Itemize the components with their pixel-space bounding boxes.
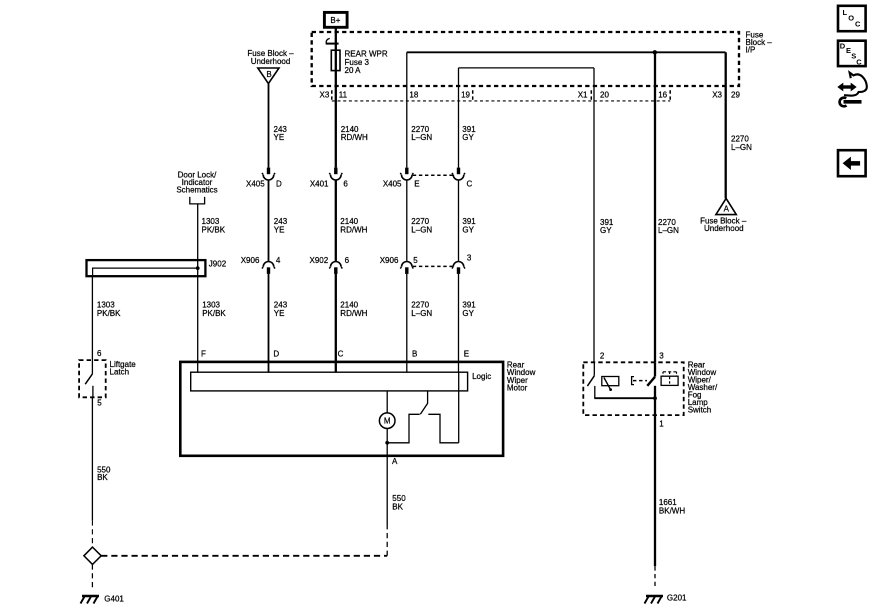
svg-text:E: E <box>464 349 469 358</box>
svg-text:29: 29 <box>731 90 740 99</box>
svg-text:20: 20 <box>600 90 609 99</box>
svg-text:G401: G401 <box>104 595 124 604</box>
svg-text:6: 6 <box>345 256 350 265</box>
svg-text:Underhood: Underhood <box>251 57 291 66</box>
svg-text:A: A <box>724 205 730 214</box>
svg-text:3: 3 <box>467 253 472 262</box>
svg-text:X401: X401 <box>310 180 329 189</box>
svg-text:YE: YE <box>274 309 285 318</box>
svg-text:D: D <box>273 349 279 358</box>
svg-text:C: C <box>338 349 344 358</box>
svg-text:X1: X1 <box>578 90 588 99</box>
svg-text:B: B <box>266 70 271 79</box>
svg-text:Logic: Logic <box>472 372 491 381</box>
svg-text:BK/WH: BK/WH <box>659 507 685 516</box>
svg-text:18: 18 <box>409 90 418 99</box>
svg-text:A: A <box>392 457 398 466</box>
svg-text:5: 5 <box>413 256 418 265</box>
svg-text:BK: BK <box>392 503 403 512</box>
svg-text:L–GN: L–GN <box>658 226 679 235</box>
svg-text:5: 5 <box>97 399 102 408</box>
svg-text:YE: YE <box>274 225 285 234</box>
svg-text:L–GN: L–GN <box>411 133 432 142</box>
svg-text:O: O <box>848 14 854 23</box>
svg-text:D: D <box>276 180 282 189</box>
svg-text:X906: X906 <box>241 256 260 265</box>
svg-text:B: B <box>412 349 417 358</box>
svg-text:Schematics: Schematics <box>176 185 217 194</box>
svg-text:BK: BK <box>97 473 108 482</box>
svg-text:X3: X3 <box>320 90 330 99</box>
svg-text:16: 16 <box>658 90 667 99</box>
svg-text:RD/WH: RD/WH <box>340 225 367 234</box>
svg-text:GY: GY <box>600 226 612 235</box>
svg-text:RD/WH: RD/WH <box>340 309 367 318</box>
svg-text:X405: X405 <box>246 180 265 189</box>
svg-text:M: M <box>384 417 391 426</box>
svg-text:C: C <box>467 180 473 189</box>
svg-text:20 A: 20 A <box>345 66 362 75</box>
svg-text:Motor: Motor <box>507 384 528 393</box>
svg-text:X405: X405 <box>383 180 402 189</box>
svg-text:6: 6 <box>343 180 348 189</box>
svg-text:F: F <box>201 349 206 358</box>
svg-text:J902: J902 <box>209 259 227 268</box>
svg-text:3: 3 <box>659 352 664 361</box>
svg-text:L–GN: L–GN <box>411 309 432 318</box>
svg-text:X3: X3 <box>712 90 722 99</box>
svg-text:Switch: Switch <box>688 405 712 414</box>
svg-text:2: 2 <box>600 352 605 361</box>
svg-text:D: D <box>840 41 846 50</box>
svg-text:B+: B+ <box>330 16 340 25</box>
svg-text:L–GN: L–GN <box>731 143 752 152</box>
svg-text:C: C <box>855 20 861 29</box>
svg-text:GY: GY <box>462 309 474 318</box>
svg-text:GY: GY <box>462 225 474 234</box>
svg-text:Latch: Latch <box>110 368 130 377</box>
svg-text:PK/BK: PK/BK <box>202 309 226 318</box>
svg-text:L: L <box>843 8 848 17</box>
svg-text:I/P: I/P <box>746 45 756 54</box>
svg-text:X902: X902 <box>310 256 329 265</box>
svg-text:11: 11 <box>339 90 348 99</box>
svg-text:4: 4 <box>276 256 281 265</box>
svg-text:PK/BK: PK/BK <box>97 309 121 318</box>
svg-text:G201: G201 <box>667 593 687 602</box>
svg-text:RD/WH: RD/WH <box>341 133 368 142</box>
svg-text:PK/BK: PK/BK <box>202 225 226 234</box>
svg-text:19: 19 <box>461 90 470 99</box>
svg-text:L–GN: L–GN <box>411 225 432 234</box>
svg-text:6: 6 <box>97 349 102 358</box>
svg-text:1: 1 <box>659 419 664 428</box>
svg-text:Underhood: Underhood <box>704 224 744 233</box>
svg-text:X906: X906 <box>380 256 399 265</box>
svg-text:E: E <box>414 180 419 189</box>
svg-text:C: C <box>856 57 862 66</box>
svg-text:YE: YE <box>274 133 285 142</box>
svg-text:GY: GY <box>462 133 474 142</box>
